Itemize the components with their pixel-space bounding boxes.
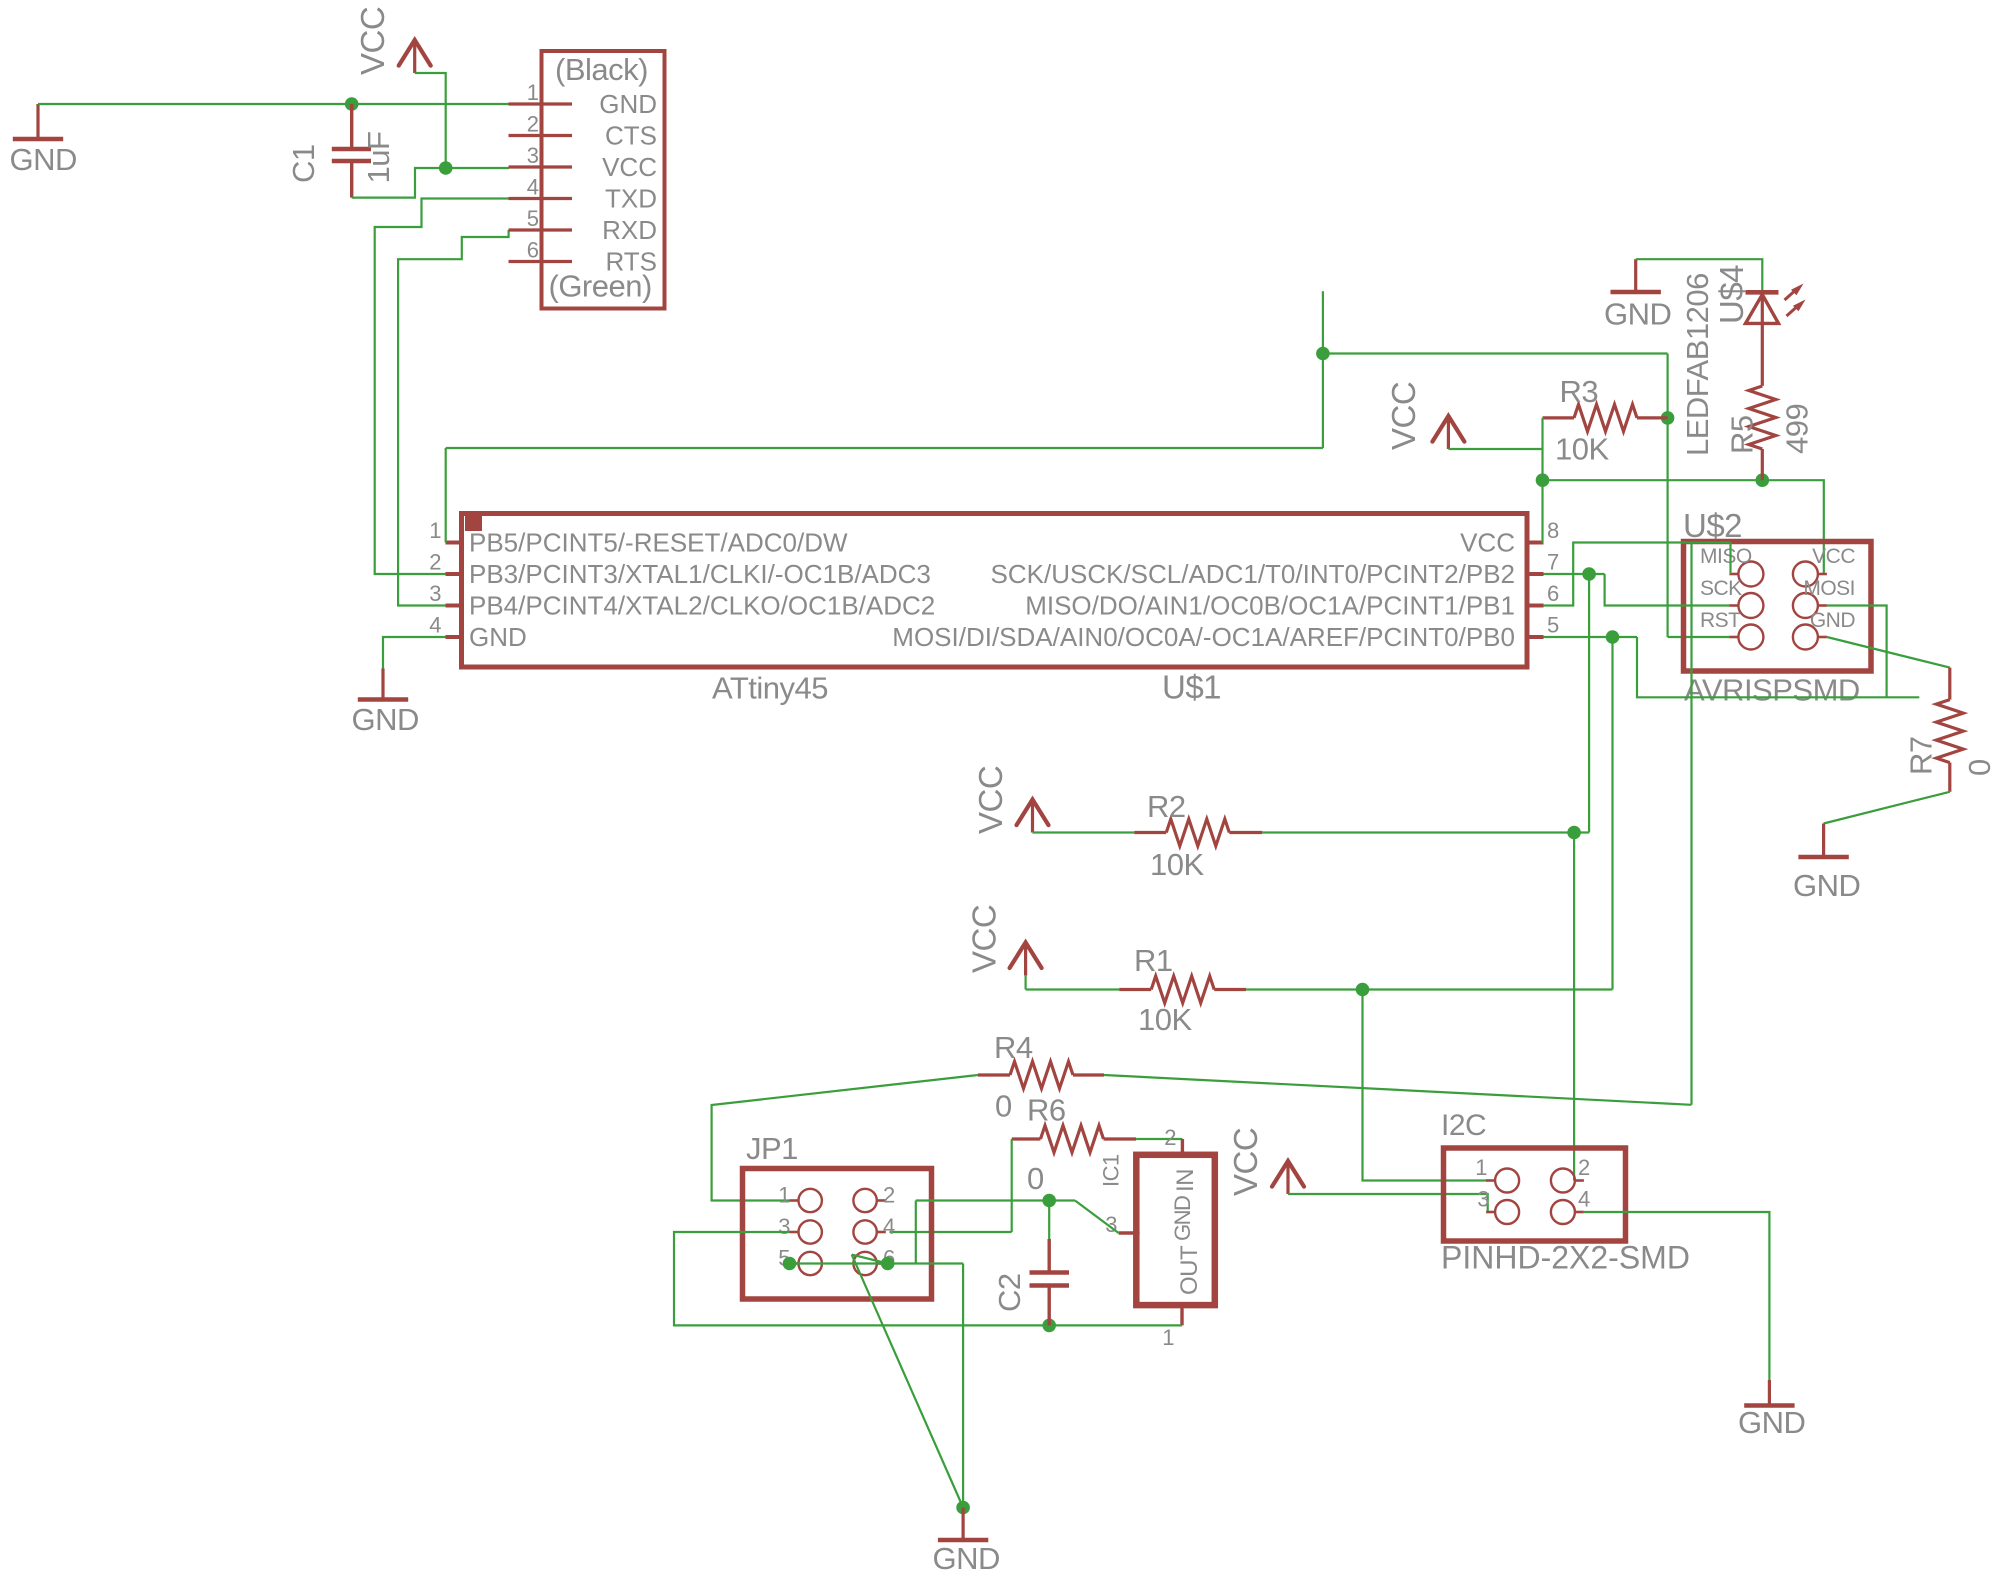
resistor R4 xyxy=(978,1030,1104,1124)
wire VCC to R2 xyxy=(1033,831,1135,833)
ground GND (LED branch) xyxy=(1604,259,1671,331)
wire R6 riser to JP1 pin 4 row xyxy=(1011,1139,1013,1232)
wire U$1 pin 5 MOSI net xyxy=(1544,636,1638,638)
svg-text:ATtiny45: ATtiny45 xyxy=(712,671,828,706)
pin 3 of connector xyxy=(509,143,573,168)
svg-text:GND: GND xyxy=(469,622,527,652)
wire U$1 pin 1 riser xyxy=(445,448,447,543)
pad VCC of U$2 xyxy=(1793,545,1855,587)
LED light arrows of U$4 xyxy=(1785,284,1806,317)
wire R2 to SCK riser xyxy=(1262,831,1589,833)
wire JP1 row 3 xyxy=(790,1262,964,1264)
resistor R1 xyxy=(1119,943,1246,1037)
node junction SCK xyxy=(1582,567,1596,581)
wire SCK to R2 riser xyxy=(1588,574,1590,833)
pin name PB4 of U$1 xyxy=(469,591,935,621)
power VCC symbol (at I2C) xyxy=(1227,1128,1304,1196)
wire U$1 pin 7 SCK net xyxy=(1544,573,1605,575)
wire C1 bottom to node xyxy=(352,168,446,198)
pin 2 of U$1 xyxy=(429,550,462,575)
wire RESET down to RST pad xyxy=(1666,418,1668,637)
svg-text:(Black): (Black) xyxy=(555,52,648,87)
svg-text:4: 4 xyxy=(1578,1187,1590,1212)
wire SCK jog to SCK pad xyxy=(1605,574,1730,606)
svg-text:AVRISPSMD: AVRISPSMD xyxy=(1684,673,1860,708)
pin 1 of U$1 xyxy=(429,518,462,543)
label IC1 xyxy=(1099,1154,1124,1187)
svg-text:1: 1 xyxy=(778,1183,790,1208)
node junction RESET xyxy=(1316,347,1330,361)
wire I2C pin 4 to ground xyxy=(1583,1212,1769,1380)
wire R1 node to I2C pin 1 xyxy=(1363,990,1489,1181)
label U$4 xyxy=(1713,265,1750,324)
wire R6 to IC1 pin 2 xyxy=(1136,1138,1182,1140)
connector U$2 AVRISPSMD box xyxy=(1684,542,1872,672)
resistor R2 xyxy=(1134,789,1262,882)
wire RESET net horizontal xyxy=(446,447,1323,449)
svg-text:U$2: U$2 xyxy=(1683,507,1742,544)
svg-text:0: 0 xyxy=(995,1089,1012,1124)
wire U$1 pin 6 MISO net xyxy=(1544,543,1731,606)
svg-text:1uF: 1uF xyxy=(361,132,396,184)
pin name PB3 of U$1 xyxy=(469,559,931,589)
capacitor C2 xyxy=(992,1201,1069,1326)
svg-text:VCC: VCC xyxy=(972,766,1009,834)
node junction R3 right xyxy=(1661,411,1675,425)
connector JP1 box xyxy=(743,1169,932,1300)
pin 5 of connector xyxy=(509,206,573,231)
node junction C2 top xyxy=(1042,1194,1056,1208)
wire JP1 pin 3 to OUT net xyxy=(674,1232,1049,1325)
power VCC symbol (at R2) xyxy=(972,766,1049,834)
wire VCC rail to VCC pad of U$2 xyxy=(1762,480,1824,574)
wire MISO drop to MISO pad xyxy=(1729,543,1731,575)
svg-text:4: 4 xyxy=(883,1214,895,1239)
svg-text:GND: GND xyxy=(1170,1196,1195,1241)
pin name GND of U$1 xyxy=(469,622,527,652)
capacitor C1 xyxy=(286,104,396,198)
svg-text:PB5/PCINT5/-RESET/ADC0/DW: PB5/PCINT5/-RESET/ADC0/DW xyxy=(469,528,848,558)
wire R3 left riser xyxy=(1541,418,1543,480)
pin 4 of connector xyxy=(509,175,573,200)
pin name GND of connector xyxy=(599,89,657,119)
svg-text:7: 7 xyxy=(1547,550,1559,575)
wire R1 to MOSI riser xyxy=(1246,988,1612,990)
wire VCC to I2C pin 3 xyxy=(1288,1194,1488,1212)
svg-text:3: 3 xyxy=(429,581,441,606)
connector J1 (serial header) box xyxy=(542,51,665,309)
pin name CTS of connector xyxy=(605,121,657,151)
svg-text:JP1: JP1 xyxy=(746,1131,798,1166)
svg-text:VCC: VCC xyxy=(1227,1128,1264,1196)
pin name GND of IC1 xyxy=(1170,1196,1195,1241)
wire OUT net to IC1 pin 1 xyxy=(1049,1324,1182,1326)
wire RESET net riser xyxy=(1322,354,1324,449)
pin 6 of U$1 xyxy=(1527,581,1559,606)
svg-text:2: 2 xyxy=(883,1183,895,1208)
pin 4 of U$1 xyxy=(429,613,462,638)
svg-text:GND: GND xyxy=(1793,868,1860,903)
node junction VCC rail left xyxy=(1536,473,1550,487)
wire R4 to JP1 pin 1 xyxy=(712,1075,978,1201)
pin name RXD of connector xyxy=(602,215,657,245)
pad 3 of JP1 xyxy=(778,1214,822,1244)
svg-text:PB4/PCINT4/XTAL2/CLKO/OC1B/ADC: PB4/PCINT4/XTAL2/CLKO/OC1B/ADC2 xyxy=(469,591,935,621)
power VCC symbol (at R3) xyxy=(1385,382,1464,450)
svg-text:4: 4 xyxy=(527,175,539,200)
svg-text:GND: GND xyxy=(1810,609,1856,632)
pad RST of U$2 xyxy=(1700,609,1763,650)
wire R4 to MISO riser xyxy=(1104,543,1692,1105)
label U$2 xyxy=(1683,507,1742,544)
svg-text:4: 4 xyxy=(429,613,441,638)
svg-text:I2C: I2C xyxy=(1441,1109,1486,1142)
svg-text:SCK/USCK/SCL/ADC1/T0/INT0/PCIN: SCK/USCK/SCL/ADC1/T0/INT0/PCINT2/PB2 xyxy=(991,559,1515,589)
svg-text:R2: R2 xyxy=(1147,789,1186,824)
svg-text:10K: 10K xyxy=(1555,432,1609,467)
svg-text:VCC: VCC xyxy=(1812,545,1855,568)
svg-text:OUT: OUT xyxy=(1176,1245,1203,1295)
svg-text:2: 2 xyxy=(527,112,539,137)
svg-text:GND: GND xyxy=(1738,1405,1805,1440)
pad 5 of JP1 xyxy=(778,1246,822,1276)
svg-text:GND: GND xyxy=(1604,297,1671,332)
svg-text:R7: R7 xyxy=(1904,736,1939,775)
svg-text:U$1: U$1 xyxy=(1162,669,1221,706)
svg-text:PINHD-2X2-SMD: PINHD-2X2-SMD xyxy=(1441,1240,1690,1276)
wire JP1 pin 6 to ground xyxy=(852,1255,963,1508)
ground GND (U$1 pin 4) xyxy=(352,669,419,738)
svg-text:VCC: VCC xyxy=(602,152,657,182)
pin name RTS of connector xyxy=(605,247,657,277)
pad 2 of I2C xyxy=(1551,1155,1590,1193)
wire GND pad of U$2 to R7 xyxy=(1827,637,1950,668)
svg-text:3: 3 xyxy=(1477,1187,1489,1212)
regulator IC1 box xyxy=(1136,1155,1215,1305)
svg-text:C2: C2 xyxy=(992,1273,1027,1312)
resistor R3 xyxy=(1543,374,1668,467)
node junction VCC rail at R5 xyxy=(1756,473,1770,487)
node junction VCC pin3 xyxy=(439,161,453,175)
svg-text:GND: GND xyxy=(599,89,657,119)
svg-text:1: 1 xyxy=(527,80,539,105)
svg-text:3: 3 xyxy=(527,143,539,168)
pad 1 of JP1 xyxy=(778,1183,822,1213)
pin 8 of U$1 xyxy=(1527,518,1559,543)
label (Black) xyxy=(555,52,648,87)
svg-text:6: 6 xyxy=(527,238,539,263)
wire GND net to IC1 pin 3 xyxy=(1075,1201,1119,1234)
svg-text:C1: C1 xyxy=(286,144,321,183)
ground GND (R7) xyxy=(1793,824,1860,904)
svg-text:MOSI/DI/SDA/AIN0/OC0A/-OC1A/AR: MOSI/DI/SDA/AIN0/OC0A/-OC1A/AREF/PCINT0/… xyxy=(892,622,1515,652)
label U$1 xyxy=(1162,669,1221,706)
svg-text:R4: R4 xyxy=(994,1030,1033,1065)
svg-text:IN: IN xyxy=(1172,1169,1199,1192)
svg-text:VCC: VCC xyxy=(966,905,1003,973)
svg-text:0: 0 xyxy=(1962,759,1997,776)
svg-text:2: 2 xyxy=(429,550,441,575)
wire RESET stub up xyxy=(1322,291,1324,353)
svg-text:SCK: SCK xyxy=(1700,577,1742,600)
ground GND (I2C) xyxy=(1738,1380,1805,1440)
power VCC symbol (top left) xyxy=(354,7,431,75)
ground GND (near C1) xyxy=(10,104,77,177)
pin name PB2 of U$1 xyxy=(991,559,1515,589)
label ATtiny45 xyxy=(712,671,828,706)
node junction MOSI xyxy=(1606,630,1620,644)
svg-text:1: 1 xyxy=(429,518,441,543)
pad 6 of JP1 xyxy=(853,1246,895,1276)
node junction JP1 pin 5 xyxy=(783,1257,797,1271)
wire RXD connector pin 5 to U$1 pin 3 xyxy=(398,230,509,606)
node junction JP1 pin 6 xyxy=(881,1257,895,1271)
pad MISO of U$2 xyxy=(1700,545,1763,587)
wire MOSI to R1 riser xyxy=(1611,637,1613,990)
svg-text:PB3/PCINT3/XTAL1/CLKI/-OC1B/AD: PB3/PCINT3/XTAL1/CLKI/-OC1B/ADC3 xyxy=(469,559,931,589)
pad 2 of JP1 xyxy=(853,1183,895,1213)
svg-text:R3: R3 xyxy=(1560,374,1599,409)
svg-text:(Green): (Green) xyxy=(549,269,652,304)
wire TXD connector pin 4 to U$1 pin 2 xyxy=(375,199,509,575)
pin name IN of IC1 xyxy=(1172,1169,1199,1192)
wire RESET to R3 xyxy=(1323,352,1668,354)
svg-text:VCC: VCC xyxy=(1385,382,1422,450)
wire node to connector pin 3 xyxy=(446,167,509,169)
wire VCC symbol to node xyxy=(415,73,446,168)
pad 4 of I2C xyxy=(1551,1187,1590,1225)
wire MOSI net lower run xyxy=(1637,637,1919,697)
wire VCC to R1 xyxy=(1026,988,1120,990)
label AVRISPSMD xyxy=(1684,673,1860,708)
pad SCK of U$2 xyxy=(1700,577,1763,618)
pad MOSI of U$2 xyxy=(1793,577,1855,618)
svg-text:VCC: VCC xyxy=(1460,528,1515,558)
svg-text:2: 2 xyxy=(1164,1125,1176,1150)
svg-text:MISO/DO/AIN1/OC0B/OC1A/PCINT1/: MISO/DO/AIN1/OC0B/OC1A/PCINT1/PB1 xyxy=(1025,591,1515,621)
pad GND of U$2 xyxy=(1793,609,1855,650)
pin name TXD of connector xyxy=(605,184,657,214)
wire RESET to RST pad of U$2 xyxy=(1668,636,1730,638)
svg-text:MOSI: MOSI xyxy=(1803,577,1855,600)
svg-text:GND: GND xyxy=(933,1541,1000,1576)
resistor R7 xyxy=(1904,668,1998,792)
pin name PB0 of U$1 xyxy=(892,622,1515,652)
pin 3 of IC1 xyxy=(1105,1212,1139,1237)
pad 3 of I2C xyxy=(1477,1187,1519,1225)
label PINHD-2X2-SMD xyxy=(1441,1240,1690,1276)
svg-text:1: 1 xyxy=(1475,1155,1487,1180)
svg-text:5: 5 xyxy=(1547,613,1559,638)
pin 2 of connector xyxy=(509,112,573,137)
wire R2 node to I2C pin 2 xyxy=(1573,833,1575,1181)
wire VCC rail to U$1 pin 8 xyxy=(1541,480,1543,542)
svg-text:VCC: VCC xyxy=(354,7,391,75)
node junction bottom ground xyxy=(956,1501,970,1515)
pin 1 of IC1 xyxy=(1162,1305,1182,1350)
wire VCC symbol stub at R1 xyxy=(1024,975,1026,990)
resistor R6 xyxy=(1012,1093,1136,1197)
wire GND net riser at JP1 xyxy=(915,1201,917,1264)
pin 1 of connector xyxy=(509,80,573,105)
svg-text:LEDFAB1206: LEDFAB1206 xyxy=(1680,273,1715,456)
svg-text:TXD: TXD xyxy=(605,184,657,214)
wire RESET down to R3 node xyxy=(1666,354,1668,418)
svg-text:CTS: CTS xyxy=(605,121,657,151)
wire VCC rail xyxy=(1543,479,1763,481)
label JP1 xyxy=(746,1131,798,1166)
pin name PB5 of U$1 xyxy=(469,528,848,558)
svg-text:5: 5 xyxy=(527,206,539,231)
svg-text:RST: RST xyxy=(1700,609,1741,632)
wire VCC symbol to R3 riser xyxy=(1448,448,1542,450)
pin 1 marker of U$1 xyxy=(465,516,482,531)
wire R7 to ground xyxy=(1824,792,1950,824)
pad 1 of I2C xyxy=(1475,1155,1519,1193)
pin name VCC of U$1 xyxy=(1460,528,1515,558)
pin name OUT of IC1 xyxy=(1176,1245,1203,1295)
node junction R1/I2C xyxy=(1356,983,1370,997)
wire JP1 pin 4 to R6 xyxy=(890,1231,1012,1233)
svg-text:R6: R6 xyxy=(1027,1093,1066,1128)
svg-text:499: 499 xyxy=(1780,404,1815,454)
label (Green) xyxy=(549,269,652,304)
svg-text:GND: GND xyxy=(10,142,77,177)
pin name PB1 of U$1 xyxy=(1025,591,1515,621)
svg-text:10K: 10K xyxy=(1150,847,1204,882)
pin 2 of IC1 xyxy=(1164,1125,1182,1158)
power VCC symbol (at R1) xyxy=(966,905,1042,976)
svg-text:1: 1 xyxy=(1162,1325,1174,1350)
pin 7 of U$1 xyxy=(1527,550,1559,575)
svg-text:GND: GND xyxy=(352,702,419,737)
wire U$1 pin 4 to ground xyxy=(383,637,446,669)
node junction C2 bottom xyxy=(1042,1319,1056,1333)
svg-text:10K: 10K xyxy=(1138,1002,1192,1037)
pad 4 of JP1 xyxy=(853,1214,895,1244)
svg-text:R5: R5 xyxy=(1725,415,1760,454)
connector I2C box xyxy=(1444,1148,1626,1241)
svg-text:RXD: RXD xyxy=(602,215,657,245)
svg-text:8: 8 xyxy=(1547,518,1559,543)
svg-text:MISO: MISO xyxy=(1700,545,1752,568)
ground GND (bottom middle) xyxy=(933,1508,1000,1577)
svg-text:U$4: U$4 xyxy=(1713,265,1750,324)
wire GND net to connector pin 1 xyxy=(38,103,509,105)
LED U$4 xyxy=(1746,292,1779,386)
pin 6 of connector xyxy=(509,238,573,263)
svg-text:6: 6 xyxy=(1547,581,1559,606)
svg-text:3: 3 xyxy=(778,1214,790,1239)
svg-text:R1: R1 xyxy=(1134,943,1173,978)
wire JP1 pin 6 tap xyxy=(852,1255,888,1264)
node junction C1 top xyxy=(345,97,359,111)
resistor R5 xyxy=(1725,386,1815,480)
pin 5 of U$1 xyxy=(1527,613,1559,638)
svg-text:2: 2 xyxy=(1578,1155,1590,1180)
wire MOSI pad to lower run xyxy=(1827,606,1887,698)
wire GND to LED U$4 xyxy=(1636,259,1763,290)
svg-text:IC1: IC1 xyxy=(1099,1154,1124,1187)
pin 3 of U$1 xyxy=(429,581,462,606)
IC U$1 ATtiny45 box xyxy=(462,514,1528,668)
wire JP1 row 3 drop xyxy=(962,1264,964,1508)
wire GND net horizontal xyxy=(916,1199,1075,1201)
label LEDFAB1206 xyxy=(1680,273,1715,456)
svg-text:0: 0 xyxy=(1027,1161,1044,1196)
label I2C xyxy=(1441,1109,1486,1142)
pin name VCC of connector xyxy=(602,152,657,182)
node junction R2/I2C xyxy=(1567,826,1581,840)
